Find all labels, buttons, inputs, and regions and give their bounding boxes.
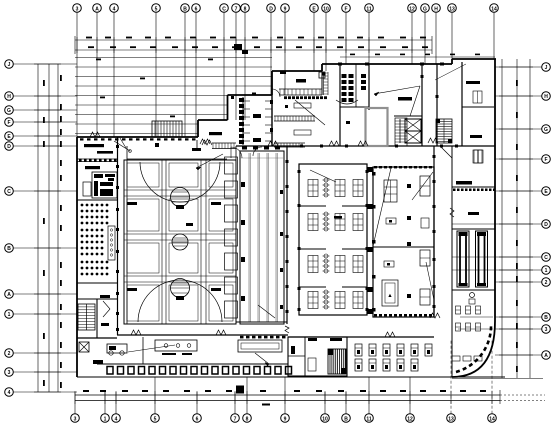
svg-text:11: 11 xyxy=(366,6,372,12)
three-point arc top court xyxy=(140,162,220,202)
svg-text:B: B xyxy=(544,315,548,321)
svg-text:A: A xyxy=(95,6,99,12)
svg-text:2: 2 xyxy=(8,351,11,357)
svg-text:3: 3 xyxy=(76,6,79,12)
toilet stall room xyxy=(243,101,272,142)
gym east equipment xyxy=(382,176,430,306)
svg-text:5: 5 xyxy=(155,6,158,12)
svg-text:B: B xyxy=(7,246,11,252)
building outer walls xyxy=(77,59,505,377)
top grid bubbles and vertical grid lines xyxy=(73,4,499,137)
svg-text:H: H xyxy=(544,94,548,100)
svg-text:12: 12 xyxy=(409,6,415,12)
svg-text:3: 3 xyxy=(8,370,11,376)
corridor door frames right xyxy=(433,155,436,308)
svg-text:C: C xyxy=(544,255,548,261)
svg-text:8: 8 xyxy=(246,416,249,422)
dark dash row below band1 xyxy=(284,96,327,99)
pool edge markers xyxy=(241,147,283,310)
svg-text:2: 2 xyxy=(545,280,548,286)
gym east wall door frames xyxy=(372,172,376,312)
swimming pool basin xyxy=(240,151,284,324)
svg-text:4: 4 xyxy=(8,390,11,396)
gym divider columns xyxy=(368,167,373,314)
top cluster partition walls xyxy=(243,62,494,146)
basketball symbol 2 xyxy=(172,234,188,250)
svg-text:F: F xyxy=(344,6,347,12)
svg-text:3: 3 xyxy=(74,416,77,422)
svg-text:9: 9 xyxy=(284,6,287,12)
south protruding block xyxy=(288,337,347,376)
SW elevator xyxy=(79,342,89,352)
svg-text:7: 7 xyxy=(234,416,237,422)
gym wall door frames xyxy=(298,170,369,311)
svg-text:6: 6 xyxy=(196,416,199,422)
bleacher boxes xyxy=(225,157,238,318)
svg-text:14: 14 xyxy=(491,6,497,12)
bowling track 1 xyxy=(457,231,469,287)
colonnade along SE arc xyxy=(456,324,491,372)
south block stairwell xyxy=(328,349,346,374)
svg-text:9: 9 xyxy=(284,416,287,422)
bottom grid bubbles and vertical grid lines xyxy=(71,340,497,422)
svg-text:F: F xyxy=(544,157,547,163)
west room furniture tables xyxy=(83,144,113,196)
svg-text:10: 10 xyxy=(323,6,329,12)
basketball symbol 1 xyxy=(171,188,190,210)
svg-text:10: 10 xyxy=(322,416,328,422)
svg-text:G: G xyxy=(423,6,427,12)
left dimension band xyxy=(34,64,62,392)
svg-text:4: 4 xyxy=(115,416,118,422)
gym annotation leaders xyxy=(373,168,434,300)
gray-wall room xyxy=(366,108,388,146)
lectern xyxy=(108,226,115,260)
svg-text:C: C xyxy=(222,6,226,12)
svg-text:12: 12 xyxy=(407,416,413,422)
locker hatch band 2 xyxy=(274,116,315,121)
svg-text:H: H xyxy=(7,94,11,100)
locker hatch band 1 xyxy=(279,89,322,95)
svg-text:A: A xyxy=(544,353,548,359)
NE stair xyxy=(436,119,452,143)
canopy roof grid lines upper-left xyxy=(75,58,272,134)
svg-text:13: 13 xyxy=(448,416,454,422)
locker hatch band 3 xyxy=(274,143,305,147)
top dimension band xyxy=(75,36,495,57)
svg-text:14: 14 xyxy=(489,416,495,422)
svg-text:3: 3 xyxy=(545,327,548,333)
concourse walls xyxy=(236,145,495,161)
bottom dimension band xyxy=(75,386,545,406)
svg-text:H: H xyxy=(434,6,438,12)
bottom corridor partition xyxy=(142,337,144,364)
colonnade columns xyxy=(107,367,292,375)
basketball hall outline xyxy=(124,159,236,324)
right dimension band xyxy=(452,59,543,379)
auditorium seating dots xyxy=(81,204,109,276)
svg-text:B: B xyxy=(183,6,187,12)
door frames top cluster xyxy=(231,63,444,133)
svg-text:7: 7 xyxy=(235,6,238,12)
concourse door arcs xyxy=(231,147,262,158)
block corner details xyxy=(272,72,328,98)
pool east wall xyxy=(286,146,289,324)
reception desk 2 xyxy=(238,340,282,352)
gym east room divider xyxy=(373,246,434,248)
svg-text:D: D xyxy=(7,144,11,150)
hall structural grid xyxy=(124,160,236,324)
right wing room furniture xyxy=(440,146,496,217)
hall annotation leaders xyxy=(196,154,336,318)
court black markers xyxy=(127,202,221,291)
gym window equipment grid xyxy=(308,180,363,309)
west strip partition walls xyxy=(77,137,434,364)
SW room marks xyxy=(93,360,103,364)
svg-text:8: 8 xyxy=(244,6,247,12)
room labels top cluster xyxy=(209,79,412,135)
left grid bubbles and horizontal grid lines xyxy=(5,60,77,397)
gym west room label xyxy=(334,216,342,219)
gym east room outline xyxy=(373,166,434,317)
svg-text:▲: ▲ xyxy=(387,293,392,299)
svg-text:1: 1 xyxy=(545,268,548,274)
svg-text:11: 11 xyxy=(366,416,372,422)
svg-text:B: B xyxy=(344,416,348,422)
elevator shafts xyxy=(400,119,421,143)
svg-text:13: 13 xyxy=(449,6,455,12)
strip above hall details xyxy=(114,138,236,152)
right wing equipment rows xyxy=(452,306,482,361)
gym west room outline xyxy=(299,164,367,315)
M door symbols xyxy=(90,132,440,337)
basketball symbol 3 xyxy=(171,279,190,301)
toilet fixtures xyxy=(336,74,366,124)
pool hall south wall xyxy=(236,322,289,338)
svg-text:1: 1 xyxy=(8,312,11,318)
locker wall xyxy=(239,98,244,144)
svg-text:G: G xyxy=(544,127,548,133)
car symbol xyxy=(107,344,127,355)
svg-text:6: 6 xyxy=(195,6,198,12)
right grid bubbles and horizontal grid lines xyxy=(452,63,550,360)
NW stair block xyxy=(152,121,182,137)
icon below tracks xyxy=(469,293,475,305)
svg-text:J: J xyxy=(8,62,11,68)
svg-text:D: D xyxy=(269,6,273,12)
three-point arc bottom court xyxy=(138,280,222,322)
bottom corridor annotation xyxy=(128,345,175,352)
reception desk 1 xyxy=(155,340,197,355)
svg-text:A: A xyxy=(7,292,11,298)
barbell rack symbols xyxy=(323,178,330,309)
right wing corridor wall xyxy=(434,146,495,377)
west corridor door frames xyxy=(116,145,119,331)
SW stair xyxy=(78,304,95,330)
svg-text:1: 1 xyxy=(104,416,107,422)
svg-text:D: D xyxy=(544,222,548,228)
svg-text:5: 5 xyxy=(154,416,157,422)
svg-text:J: J xyxy=(545,65,548,71)
lounge chair rows xyxy=(355,344,432,371)
svg-text:G: G xyxy=(7,108,11,114)
svg-text:4: 4 xyxy=(113,6,116,12)
annotation leaders top xyxy=(295,64,466,125)
NE rooms furniture xyxy=(466,81,482,163)
svg-text:F: F xyxy=(7,120,10,126)
bowling track 2 xyxy=(476,231,488,287)
svg-text:C: C xyxy=(7,189,11,195)
small stair shaft xyxy=(395,118,407,146)
AHU equipment block xyxy=(92,172,117,198)
